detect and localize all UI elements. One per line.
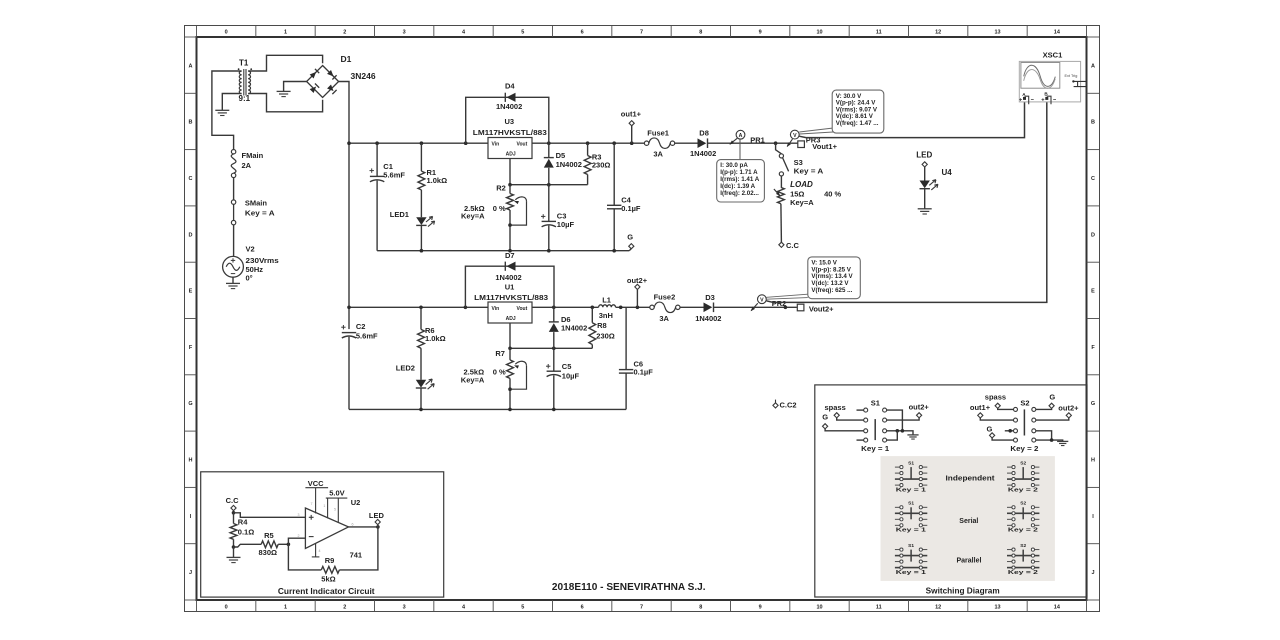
svg-text:11: 11 (876, 30, 882, 36)
svg-text:I: 30.0 pA: I: 30.0 pA (720, 162, 748, 169)
wire bridge left to ground (284, 82, 307, 92)
svg-text:ADJ: ADJ (506, 152, 516, 158)
svg-text:1.0kΩ: 1.0kΩ (427, 176, 448, 185)
svg-text:J: J (1091, 570, 1094, 576)
measurement box I PR1 (717, 160, 765, 202)
svg-text:V: V (793, 133, 797, 139)
svg-text:1: 1 (284, 30, 287, 36)
svg-text:ADJ: ADJ (506, 316, 516, 322)
svg-text:V(freq): 625 ...: V(freq): 625 ... (811, 287, 852, 294)
wire secondary bottom to bridge (248, 94, 322, 112)
voltmeter probe PR3 (787, 139, 792, 146)
terminal G channel1 (629, 249, 631, 251)
measurement box V PR3 (832, 90, 884, 133)
svg-text:1N4002: 1N4002 (556, 160, 582, 169)
svg-text:13: 13 (994, 604, 1000, 610)
potentiometer R7 2.5k (509, 348, 511, 360)
svg-text:H: H (1091, 457, 1095, 463)
svg-text:2: 2 (298, 534, 300, 538)
svg-text:D5: D5 (556, 151, 566, 160)
svg-text:spass: spass (985, 393, 1006, 402)
svg-text:R4: R4 (238, 517, 248, 526)
wire top rail channel 1 (349, 142, 488, 144)
feedback wire (288, 544, 321, 570)
svg-text:A: A (1091, 63, 1095, 69)
wire PR2 to scope channel B (766, 101, 1047, 303)
switching diagram box (815, 385, 1087, 597)
resistor R3 230 (587, 143, 589, 155)
svg-text:LED: LED (916, 151, 932, 160)
svg-text:Key = 1: Key = 1 (896, 570, 926, 576)
svg-text:LM117HVKSTL/883: LM117HVKSTL/883 (473, 128, 547, 137)
terminal LED opamp (377, 525, 379, 527)
resistor R8 230 (591, 307, 593, 322)
svg-text:6: 6 (352, 522, 354, 526)
svg-text:Vout: Vout (517, 306, 528, 312)
wire U4 to ground (924, 189, 926, 209)
svg-text:3: 3 (298, 513, 300, 517)
svg-text:3: 3 (403, 30, 406, 36)
terminal out2+ (636, 289, 638, 307)
svg-text:Vout1+: Vout1+ (812, 142, 837, 151)
svg-text:830Ω: 830Ω (259, 548, 278, 557)
svg-text:6: 6 (581, 30, 584, 36)
svg-text:4: 4 (319, 549, 321, 553)
svg-text:C.C: C.C (226, 496, 240, 505)
svg-text:40 %: 40 % (824, 190, 841, 199)
svg-text:13: 13 (994, 30, 1000, 36)
svg-text:C5: C5 (562, 362, 572, 371)
feedback wire right (339, 527, 378, 570)
S1 row2 wires (834, 413, 839, 418)
wire V2 to ground (232, 277, 234, 283)
svg-text:12: 12 (935, 30, 941, 36)
leader lines PR3 to box (799, 128, 833, 132)
svg-text:G: G (1049, 393, 1055, 402)
svg-text:S1: S1 (871, 399, 880, 408)
svg-text:SMain: SMain (245, 199, 268, 208)
node line channel1 ADJ (510, 184, 588, 186)
svg-text:2A: 2A (242, 161, 252, 170)
diode D7 1N4002 bypass loop (465, 266, 554, 307)
inductor L1 3nH (599, 305, 616, 308)
svg-text:5.6mF: 5.6mF (383, 170, 405, 179)
wire FMain to SMain (233, 178, 235, 200)
svg-text:B: B (1091, 120, 1095, 126)
svg-text:0: 0 (225, 30, 228, 36)
svg-text:D1: D1 (341, 54, 352, 64)
svg-text:14: 14 (1054, 30, 1061, 36)
svg-text:Parallel: Parallel (957, 557, 982, 564)
negative supply pin (315, 544, 317, 557)
svg-text:spass: spass (825, 403, 846, 412)
measurement box V PR2 (808, 257, 861, 299)
svg-text:Key = 1: Key = 1 (896, 528, 926, 534)
connector square Vout2+ (797, 304, 804, 311)
resistor R1 1.0k (420, 143, 422, 171)
wire ADJ pin U1 (509, 323, 511, 348)
svg-text:LM117HVKSTL/883: LM117HVKSTL/883 (474, 293, 548, 302)
svg-text:5.0V: 5.0V (329, 489, 344, 498)
svg-text:LED: LED (369, 511, 385, 520)
svg-text:D: D (1091, 232, 1095, 238)
diode D5 1N4002 (548, 143, 550, 157)
ground bridge (277, 90, 291, 92)
svg-text:Vin: Vin (492, 306, 500, 312)
svg-text:1N4002: 1N4002 (690, 149, 716, 158)
svg-text:out1+: out1+ (621, 110, 642, 119)
ext trig pulse icon (1074, 81, 1087, 86)
S1 row3 wires (823, 424, 828, 429)
svg-text:Key = 1: Key = 1 (896, 487, 926, 493)
svg-text:3N246: 3N246 (351, 71, 376, 81)
wire top rail channel 2 (349, 306, 488, 308)
wire primary top to left rail (212, 71, 242, 150)
svg-text:S1: S1 (908, 543, 914, 549)
svg-text:741: 741 (350, 550, 363, 559)
resistor R6 1.0k (420, 307, 422, 329)
S2 bar (1023, 409, 1025, 435)
svg-text:230Vrms: 230Vrms (246, 256, 279, 265)
svg-text:2: 2 (343, 30, 346, 36)
diode D3 1N4002 (713, 303, 715, 313)
resistor R9 5k (321, 567, 339, 574)
svg-text:U3: U3 (505, 117, 515, 126)
svg-text:5: 5 (521, 604, 524, 610)
svg-text:1: 1 (323, 504, 325, 508)
potentiometer R2 2.5k (509, 185, 511, 194)
svg-text:S2: S2 (1020, 543, 1026, 549)
node line channel2 ADJ (510, 347, 592, 349)
capacitor C6 0.1uF (625, 307, 627, 369)
svg-text:Current Indicator Circuit: Current Indicator Circuit (278, 587, 375, 596)
svg-text:R7: R7 (495, 349, 505, 358)
svg-text:C: C (1091, 176, 1095, 182)
sheet border frame (185, 26, 1100, 612)
diode D6 1N4002 (553, 307, 555, 322)
wire PR1 to current box (739, 139, 741, 159)
S2 row1 wires (995, 403, 1000, 408)
fuse Fuse2 3A (650, 305, 654, 309)
svg-text:R9: R9 (325, 556, 335, 565)
svg-text:Key=A: Key=A (790, 198, 814, 207)
svg-text:S2: S2 (1020, 501, 1026, 507)
svg-text:D3: D3 (705, 293, 715, 302)
svg-text:2018E110 - SENEVIRATHNA S.J.: 2018E110 - SENEVIRATHNA S.J. (552, 581, 706, 593)
voltmeter probe PR2 (751, 303, 758, 310)
scope probe tips A B (1023, 97, 1026, 100)
svg-text:1N4002: 1N4002 (561, 324, 587, 333)
S1 bar (874, 419, 876, 440)
svg-text:5kΩ: 5kΩ (321, 574, 335, 583)
svg-text:Key = 2: Key = 2 (1008, 528, 1038, 534)
ground V2 (226, 282, 240, 284)
svg-text:10µF: 10µF (562, 372, 580, 381)
transformer T1 (243, 69, 245, 96)
svg-text:R2: R2 (496, 184, 506, 193)
S2 row3 wires (1005, 430, 1014, 432)
svg-text:0°: 0° (246, 274, 253, 283)
capacitor C4 0.1uF (613, 143, 615, 205)
svg-text:1N4002: 1N4002 (495, 273, 521, 282)
svg-text:LOAD: LOAD (790, 180, 813, 189)
svg-text:10µF: 10µF (557, 220, 575, 229)
bridge rectifier D1 3N246 (307, 66, 339, 98)
svg-text:0.1µF: 0.1µF (634, 368, 654, 377)
svg-text:U1: U1 (505, 282, 515, 291)
svg-text:1.0kΩ: 1.0kΩ (425, 334, 446, 343)
op-amp U2 741 (305, 508, 348, 548)
svg-text:8: 8 (699, 604, 702, 610)
svg-text:FMain: FMain (242, 151, 264, 160)
wire bottom rail channel 2 (349, 408, 626, 410)
svg-text:1N4002: 1N4002 (496, 102, 522, 111)
LED2 (416, 380, 426, 388)
svg-text:Key = A: Key = A (245, 209, 275, 218)
svg-text:G: G (822, 413, 828, 422)
ammeter probe PR1 (730, 138, 737, 144)
svg-text:PR2: PR2 (772, 299, 787, 308)
capacitor C3 10uF (548, 185, 550, 222)
svg-text:V2: V2 (246, 245, 255, 254)
current indicator circuit box (201, 472, 444, 597)
wire bottom rail channel 1 (377, 250, 629, 252)
svg-text:C.C2: C.C2 (780, 400, 797, 409)
fuse Fuse1 3A (644, 141, 648, 145)
diode D8 1N4002 (707, 138, 709, 148)
svg-text:10: 10 (816, 30, 822, 36)
svg-text:Key = 2: Key = 2 (1010, 444, 1038, 453)
terminal C.C (779, 242, 784, 247)
svg-text:D: D (189, 232, 193, 238)
LED U4 (924, 167, 926, 181)
svg-text:L1: L1 (602, 296, 611, 305)
svg-text:Switching Diagram: Switching Diagram (926, 587, 1000, 596)
S1 row1 wires (857, 409, 864, 411)
svg-text:XSC1: XSC1 (1043, 51, 1063, 60)
capacitor C1 5.6mF (376, 143, 378, 176)
svg-text:I(p-p): 1.71 A: I(p-p): 1.71 A (720, 169, 758, 176)
wire S3 to LOAD (780, 176, 782, 187)
wire SMain to V2 (233, 225, 235, 257)
svg-text:S2: S2 (1020, 399, 1029, 408)
ground U4 (918, 208, 932, 210)
svg-text:out2+: out2+ (627, 276, 648, 285)
wire secondary top to bridge (248, 55, 322, 71)
svg-text:C.C: C.C (786, 241, 800, 250)
svg-text:Key = 2: Key = 2 (1008, 570, 1038, 576)
svg-text:Ext Trig: Ext Trig (1065, 74, 1078, 78)
wire to + input (234, 513, 307, 518)
svg-text:G: G (627, 233, 633, 242)
ground S1 (907, 434, 918, 436)
svg-text:T1: T1 (239, 59, 249, 68)
grey panel (881, 456, 1055, 581)
svg-text:B: B (189, 120, 193, 126)
S1 row4 wires (857, 439, 864, 441)
svg-text:V(freq): 1.47 ...: V(freq): 1.47 ... (836, 120, 879, 127)
switch S3 (776, 143, 782, 154)
S2 row4 wires (990, 433, 995, 438)
svg-text:V: V (760, 298, 764, 304)
svg-text:I(freq): 2.02...: I(freq): 2.02... (720, 190, 759, 197)
svg-text:D7: D7 (505, 251, 515, 260)
source V2 230Vrms (223, 256, 244, 277)
svg-text:out2+: out2+ (1058, 404, 1079, 413)
diode D4 1N4002 bypass loop (466, 97, 549, 143)
wire to - input (288, 538, 306, 544)
svg-text:7: 7 (311, 502, 313, 506)
svg-text:0 %: 0 % (493, 368, 506, 377)
mini switch S2 serial (1007, 506, 1012, 508)
switch SMain (231, 200, 235, 204)
svg-text:3A: 3A (653, 150, 663, 159)
output wire (349, 526, 378, 528)
svg-text:7: 7 (640, 604, 643, 610)
fuse FMain 2A (231, 150, 235, 154)
svg-text:D6: D6 (561, 315, 571, 324)
svg-text:0.1µF: 0.1µF (621, 204, 641, 213)
mini switch S1 parallel (895, 549, 900, 551)
svg-text:LED1: LED1 (390, 210, 409, 219)
svg-text:C2: C2 (356, 322, 366, 331)
wire R4 to ground (233, 547, 235, 557)
LED1 (416, 217, 426, 225)
wire primary bottom to ground (222, 94, 241, 111)
svg-text:7: 7 (640, 30, 643, 36)
svg-text:230Ω: 230Ω (596, 332, 615, 341)
wire ADJ pin (509, 159, 511, 185)
wire bridge output to rails (339, 82, 349, 144)
svg-text:9:1: 9:1 (239, 94, 251, 103)
svg-text:1: 1 (284, 604, 287, 610)
svg-text:I(rms): 1.41 A: I(rms): 1.41 A (720, 176, 760, 183)
svg-text:R8: R8 (597, 321, 607, 330)
connector square Vout1+ (798, 141, 805, 148)
svg-text:5.6mF: 5.6mF (356, 332, 378, 341)
svg-text:G: G (188, 401, 192, 407)
svg-text:LED2: LED2 (396, 363, 415, 372)
svg-text:I(dc): 1.39 A: I(dc): 1.39 A (720, 183, 755, 190)
svg-text:H: H (189, 457, 193, 463)
svg-text:5: 5 (334, 508, 336, 512)
svg-text:Key=A: Key=A (461, 376, 485, 385)
svg-text:C: C (189, 176, 193, 182)
svg-text:0: 0 (225, 604, 228, 610)
S2 row2 wires (978, 413, 983, 418)
svg-text:Serial: Serial (959, 518, 978, 525)
svg-text:12: 12 (935, 604, 941, 610)
svg-text:U4: U4 (942, 168, 953, 177)
svg-text:Key = A: Key = A (794, 166, 824, 175)
svg-text:VCC: VCC (308, 479, 324, 488)
svg-text:U2: U2 (351, 498, 361, 507)
svg-text:J: J (189, 570, 192, 576)
potentiometer LOAD 15ohm (778, 187, 785, 203)
svg-text:E: E (189, 289, 193, 295)
svg-text:3: 3 (403, 604, 406, 610)
svg-text:G: G (987, 425, 993, 434)
resistor R5 830ohm (261, 541, 278, 548)
svg-text:0.1Ω: 0.1Ω (238, 528, 254, 537)
terminal C.C2 (775, 400, 777, 403)
wire PR3 to scope channel A (799, 101, 1024, 138)
ground opamp input (227, 556, 241, 558)
svg-text:PR1: PR1 (750, 136, 765, 145)
svg-text:S2: S2 (1020, 460, 1026, 466)
svg-text:0 %: 0 % (493, 204, 506, 213)
svg-text:S1: S1 (908, 460, 914, 466)
terminal out1+ (631, 126, 633, 144)
svg-text:Key = 2: Key = 2 (1008, 487, 1038, 493)
svg-text:Key = 1: Key = 1 (861, 444, 889, 453)
svg-text:11: 11 (876, 604, 882, 610)
svg-text:5: 5 (521, 30, 524, 36)
svg-text:8: 8 (699, 30, 702, 36)
svg-text:Vout: Vout (517, 141, 528, 147)
svg-text:Vin: Vin (492, 141, 500, 147)
svg-text:S1: S1 (908, 501, 914, 507)
svg-text:3A: 3A (659, 314, 669, 323)
mini switch S2 independent (1007, 466, 1012, 468)
mini switch S2 parallel (1007, 549, 1012, 551)
ground primary (215, 109, 229, 111)
svg-text:R5: R5 (264, 531, 274, 540)
mini switch S1 serial (895, 506, 900, 508)
mini switch S1 independent (895, 466, 900, 468)
svg-text:Fuse1: Fuse1 (647, 128, 669, 137)
svg-text:2: 2 (343, 604, 346, 610)
svg-text:A: A (189, 63, 193, 69)
svg-text:9: 9 (759, 604, 762, 610)
resistor R4 0.1ohm (233, 513, 235, 524)
svg-text:G: G (1091, 401, 1095, 407)
svg-text:9: 9 (759, 30, 762, 36)
svg-text:out1+: out1+ (970, 403, 991, 412)
ground S2 (1057, 440, 1068, 442)
svg-text:14: 14 (1054, 604, 1061, 610)
svg-text:Vout2+: Vout2+ (809, 305, 834, 314)
svg-text:230Ω: 230Ω (592, 160, 611, 169)
svg-text:Key=A: Key=A (461, 211, 485, 220)
capacitor C5 10uF (553, 348, 555, 371)
capacitor C2 5.6mF (342, 332, 356, 334)
svg-text:D4: D4 (505, 81, 515, 90)
leader lines PR2 to box (766, 294, 807, 297)
svg-text:E: E (1091, 289, 1095, 295)
svg-text:6: 6 (581, 604, 584, 610)
wire to R5 (234, 544, 262, 547)
svg-text:Fuse2: Fuse2 (654, 292, 676, 301)
svg-text:1N4002: 1N4002 (695, 314, 721, 323)
svg-text:10: 10 (816, 604, 822, 610)
wire LOAD to C.C (780, 204, 783, 243)
svg-text:D8: D8 (699, 129, 709, 138)
svg-text:3nH: 3nH (599, 311, 613, 320)
svg-text:out2+: out2+ (909, 402, 930, 411)
svg-text:Independent: Independent (946, 476, 996, 483)
svg-text:A: A (739, 133, 743, 139)
